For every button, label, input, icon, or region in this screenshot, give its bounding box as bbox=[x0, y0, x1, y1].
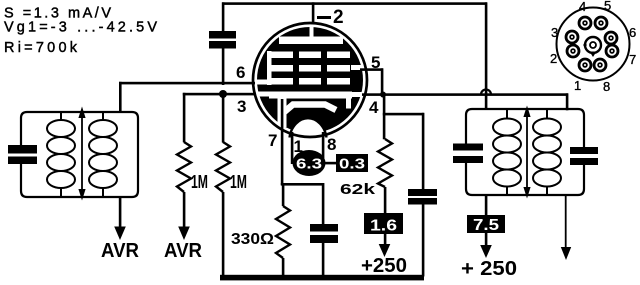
T2 tuning arrow bbox=[526, 114, 528, 190]
socket diagram bbox=[550, 0, 636, 94]
svg-text:330Ω: 330Ω bbox=[231, 231, 274, 248]
current box 7.5 bbox=[467, 215, 505, 234]
wire hop at plate crossing bbox=[481, 90, 491, 95]
wire 330 ohm to ground bus bbox=[282, 258, 285, 277]
T2 frame bbox=[466, 109, 584, 147]
capacitor T2 secondary bbox=[570, 147, 598, 154]
wire secondary top corner drop bbox=[566, 93, 569, 110]
wire pin3 line drop to R 1M left bbox=[183, 93, 186, 143]
wire screen/suppressor horizontal to output transformer bbox=[362, 93, 568, 96]
svg-text:+250: +250 bbox=[361, 255, 407, 277]
wire pin5 drop bbox=[381, 68, 384, 95]
wire cathode branch to bypass cap bbox=[281, 183, 324, 186]
wire pin3 line bbox=[183, 93, 259, 96]
svg-text:AVR: AVR bbox=[101, 240, 140, 262]
tube internal black blob bbox=[257, 27, 363, 133]
svg-text:4: 4 bbox=[369, 98, 379, 117]
socket pin 8 bbox=[594, 59, 606, 71]
svg-text:3: 3 bbox=[237, 97, 246, 116]
tube grid1 row bbox=[267, 78, 293, 85]
socket pin 3 bbox=[566, 31, 578, 43]
svg-text:62k: 62k bbox=[340, 182, 376, 198]
svg-text:1: 1 bbox=[574, 78, 581, 93]
wire pin2 plate lead bbox=[312, 2, 315, 24]
socket pin 6 bbox=[605, 32, 617, 44]
tube pin3 lead slit bbox=[256, 92, 270, 97]
heater leg pin1 bbox=[291, 132, 294, 164]
socket pin 1 bbox=[579, 59, 591, 71]
tube cathode hook bbox=[346, 92, 351, 109]
svg-text:1.6: 1.6 bbox=[370, 218, 397, 235]
wire T2 secondary output arrow bbox=[565, 195, 567, 247]
tube pin5 lead slit bbox=[351, 65, 362, 70]
transformer T1 input IFT bbox=[8, 107, 138, 201]
socket pin 2 bbox=[567, 45, 579, 57]
voltage disc 6.3 bbox=[293, 150, 326, 176]
tube envelope circle bbox=[253, 23, 367, 137]
resistor 330 ohm bbox=[276, 206, 290, 258]
tube pin2 lead slit bbox=[310, 24, 314, 38]
wire cathode cap to ground bus bbox=[322, 243, 325, 277]
tube envelope V1 bbox=[253, 23, 367, 138]
svg-text:6.3: 6.3 bbox=[296, 157, 322, 173]
T1 frame bbox=[21, 112, 138, 197]
svg-text:5: 5 bbox=[604, 0, 611, 13]
svg-text:4: 4 bbox=[579, 0, 586, 14]
T1 tuning arrow bbox=[81, 116, 83, 191]
wire screen bypass branch bbox=[383, 113, 424, 116]
current box 0.3 bbox=[336, 154, 368, 173]
resistor 1M (right, grid leak) bbox=[216, 142, 230, 192]
svg-text:7: 7 bbox=[268, 131, 277, 150]
svg-text:+ 250: + 250 bbox=[461, 258, 517, 280]
current box 1.6 bbox=[364, 213, 403, 235]
wire grid line drop to input transformer bbox=[119, 82, 122, 113]
capacitor T1 primary bbox=[8, 145, 37, 154]
svg-text:7.5: 7.5 bbox=[473, 217, 499, 234]
arrowhead +250 (T2 feed) bbox=[480, 245, 492, 258]
capacitor screen bypass bbox=[408, 189, 437, 205]
capacitor cathode bypass bbox=[310, 224, 338, 243]
arrowhead AVR 2 bbox=[178, 227, 190, 241]
wire plate top rail bbox=[222, 2, 487, 5]
wire plate drop to output transformer bbox=[485, 2, 488, 109]
resistor 1M (left, AVR return) bbox=[177, 142, 191, 192]
capacitor C1 neutralizing bbox=[209, 31, 236, 49]
svg-text:2: 2 bbox=[333, 7, 344, 28]
resistor 62k bbox=[378, 139, 392, 187]
capacitor T2 primary bbox=[453, 144, 483, 151]
svg-text:6: 6 bbox=[629, 25, 636, 40]
junction dot pin3/1M bbox=[219, 90, 227, 98]
pin label 2 with dash bbox=[317, 16, 331, 19]
wire 7.5 box to +250 arrow bbox=[485, 233, 488, 246]
wire 1.6 box to +250 arrow bbox=[384, 234, 387, 246]
transformer T2 output IFT bbox=[453, 106, 598, 199]
wire T1 secondary bottom to AVR arrow bbox=[119, 197, 122, 228]
svg-text:8: 8 bbox=[327, 135, 336, 154]
svg-text:3: 3 bbox=[551, 25, 558, 40]
tube pin4 lead slit bbox=[350, 92, 364, 97]
wire junction to R 1M right bbox=[222, 94, 225, 143]
wire C1 bottom to grid line bbox=[222, 48, 225, 85]
socket pin 4 bbox=[579, 17, 591, 29]
wire top-left drop to C1 bbox=[222, 2, 225, 31]
socket center spigot bbox=[585, 37, 601, 53]
heater leg pin8 bbox=[322, 132, 325, 158]
arrowhead output bbox=[561, 247, 571, 260]
wire pin5 stub bbox=[360, 68, 383, 71]
svg-text:1M: 1M bbox=[230, 172, 247, 192]
svg-text:6: 6 bbox=[236, 63, 245, 82]
junction pin4/pin5 node bbox=[380, 92, 386, 98]
T1 secondary winding bbox=[89, 112, 117, 197]
wire grid pin6 line bbox=[119, 82, 257, 85]
svg-text:AVR: AVR bbox=[164, 240, 203, 262]
T2 primary winding bbox=[493, 109, 521, 195]
wire screen cap to ground bus bbox=[422, 205, 425, 277]
arrowhead +250 (62k feed) bbox=[379, 244, 391, 257]
svg-text:8: 8 bbox=[603, 79, 610, 94]
tube grid left rail bbox=[267, 51, 272, 85]
wire 1M right to ground bus bbox=[222, 192, 225, 277]
T1 primary winding bbox=[47, 112, 75, 197]
svg-text:7: 7 bbox=[629, 52, 636, 67]
ground bus bbox=[220, 275, 424, 281]
tube grid2 row bbox=[267, 65, 293, 72]
socket pin 7 bbox=[606, 45, 618, 57]
tube pin6 lead slit bbox=[255, 80, 268, 85]
arrowhead AVR 1 bbox=[114, 227, 126, 241]
tube grid3 row bbox=[267, 52, 293, 59]
T2 secondary winding bbox=[533, 109, 561, 195]
tube heater chevron and dome bbox=[283, 105, 336, 114]
svg-text:0.3: 0.3 bbox=[339, 156, 365, 173]
tube anode bar bbox=[279, 37, 343, 45]
wire pin7 lead to 330 ohm bbox=[282, 185, 285, 206]
svg-text:1M: 1M bbox=[191, 172, 208, 192]
wire cathode pin7 lead bbox=[281, 99, 284, 185]
svg-text:2: 2 bbox=[550, 51, 557, 66]
wire 6.3 disc to 0.3 box bbox=[322, 162, 340, 165]
wire pin4 node down to 62k bbox=[383, 93, 386, 139]
socket outline bbox=[557, 8, 630, 81]
wire 1M left to AVR arrow bbox=[183, 192, 186, 228]
wire 62k to 1.6 box bbox=[384, 187, 387, 214]
wire T2 primary bottom to 7.5 box bbox=[485, 195, 488, 215]
socket pin 5 bbox=[595, 17, 607, 29]
tube cathode bar bbox=[269, 92, 352, 99]
